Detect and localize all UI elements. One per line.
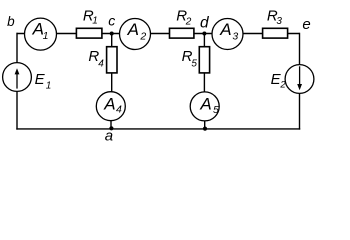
svg-text:A: A bbox=[199, 95, 211, 114]
svg-text:5: 5 bbox=[213, 104, 219, 116]
svg-text:c: c bbox=[108, 13, 115, 29]
svg-text:d: d bbox=[200, 14, 210, 31]
svg-text:4: 4 bbox=[98, 58, 104, 69]
svg-text:1: 1 bbox=[43, 30, 49, 42]
svg-text:2: 2 bbox=[185, 16, 192, 27]
svg-text:2: 2 bbox=[139, 30, 146, 42]
svg-text:a: a bbox=[105, 127, 113, 144]
svg-text:A: A bbox=[103, 94, 115, 113]
svg-text:1: 1 bbox=[46, 81, 52, 92]
svg-text:3: 3 bbox=[276, 16, 282, 27]
svg-text:b: b bbox=[7, 14, 15, 29]
svg-text:E: E bbox=[35, 71, 46, 88]
svg-text:A: A bbox=[127, 20, 139, 39]
svg-text:1: 1 bbox=[92, 16, 98, 27]
svg-text:e: e bbox=[302, 16, 310, 33]
svg-text:A: A bbox=[219, 20, 231, 39]
svg-text:2: 2 bbox=[279, 79, 286, 90]
svg-text:4: 4 bbox=[116, 104, 122, 116]
svg-text:5: 5 bbox=[191, 59, 197, 70]
svg-text:3: 3 bbox=[232, 30, 238, 42]
